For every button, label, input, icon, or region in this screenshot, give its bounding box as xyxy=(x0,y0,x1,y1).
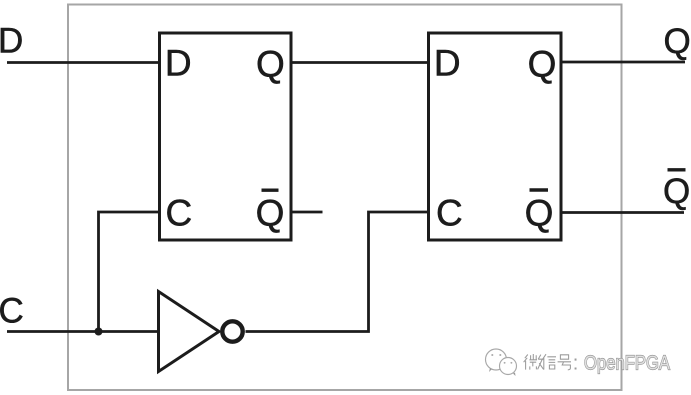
flip-flop U1 (D flip-flop box) xyxy=(160,33,292,240)
svg-text:C: C xyxy=(0,292,24,331)
wire: Q output net xyxy=(560,61,685,64)
wire: U1 Qbar stub xyxy=(290,211,323,214)
svg-text:Q: Q xyxy=(256,44,285,85)
svg-text::: : xyxy=(573,353,579,375)
watermark hanzi hao xyxy=(558,355,571,370)
wire: clock branch to U1.C xyxy=(99,212,161,332)
overline of Qbar pin of U2 xyxy=(530,188,549,191)
flip-flop U2 (D flip-flop box) xyxy=(429,33,562,240)
watermark hanzi wei xyxy=(524,354,544,370)
svg-text:Q: Q xyxy=(525,192,554,233)
svg-text:Q: Q xyxy=(256,192,285,233)
svg-text:D: D xyxy=(434,42,461,83)
wire: C input net xyxy=(7,330,159,333)
wire: Qbar output net xyxy=(560,211,684,214)
watermark wechat icon xyxy=(486,349,517,376)
svg-text:C: C xyxy=(436,193,463,234)
wire: D input net xyxy=(7,61,160,64)
junction on C net xyxy=(95,328,103,336)
border frame (decorative) xyxy=(68,5,622,391)
wire: inverted clock to U2.C xyxy=(246,212,429,332)
watermark hanzi xin xyxy=(542,354,556,369)
inverter U3 bubble xyxy=(222,321,242,341)
svg-text:Q: Q xyxy=(528,44,557,85)
svg-text:D: D xyxy=(165,42,192,83)
svg-text:C: C xyxy=(166,193,193,234)
overline of Qbar pin of U1 xyxy=(262,188,279,191)
svg-text:OpenFPGA: OpenFPGA xyxy=(584,352,670,375)
wire: U1.Q to U2.D xyxy=(290,61,428,64)
svg-text:Q: Q xyxy=(664,22,691,61)
svg-text:D: D xyxy=(0,22,23,61)
svg-text:Q: Q xyxy=(663,172,690,211)
overline of Qbar output label xyxy=(668,168,686,171)
inverter U3 (triangle) xyxy=(159,292,220,372)
